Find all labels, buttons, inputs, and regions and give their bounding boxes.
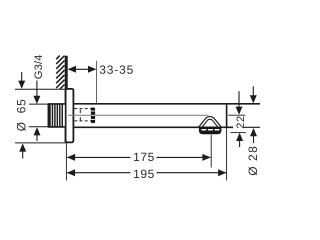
dimension dia 28 <box>246 86 260 175</box>
aerator dome outer <box>199 117 222 128</box>
dimension 22 <box>228 91 247 147</box>
thread pipe G3/4 <box>48 103 65 127</box>
wall face line <box>65 56 68 143</box>
dimension 175 <box>67 150 211 164</box>
svg-text:Ø: Ø <box>246 166 260 175</box>
centerline <box>68 114 209 116</box>
svg-text:G3/4: G3/4 <box>33 54 45 79</box>
dimension 195 <box>67 167 226 181</box>
dimension dia 65 <box>14 72 65 159</box>
svg-text:22: 22 <box>235 115 247 129</box>
hidden dashed inlet <box>74 109 91 121</box>
svg-text:28: 28 <box>246 145 260 161</box>
svg-text:195: 195 <box>133 167 155 181</box>
spout tube bottom line <box>74 126 234 128</box>
aerator cup (dark) <box>199 128 222 135</box>
wall hatch <box>56 56 64 90</box>
dimension G3/4 <box>29 54 49 141</box>
svg-text:175: 175 <box>133 150 155 164</box>
svg-text:65: 65 <box>14 98 28 113</box>
195 extension line at tip <box>226 128 228 181</box>
svg-text:33-35: 33-35 <box>99 63 134 77</box>
dimension 33-35 <box>68 61 134 104</box>
left extension line below flange <box>65 143 67 181</box>
escutcheon flange <box>66 89 74 142</box>
o-ring stack (dark) <box>91 108 95 124</box>
tip face <box>226 104 228 128</box>
spout tube top line <box>74 103 261 105</box>
175 extension line below aerator <box>210 135 212 168</box>
svg-text:Ø: Ø <box>14 122 28 131</box>
aerator dome inner <box>202 119 218 127</box>
